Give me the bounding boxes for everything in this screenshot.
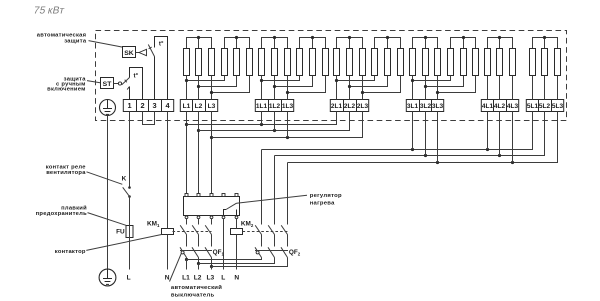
- ST contact stub: [114, 83, 119, 85]
- svg-text:контактор: контактор: [55, 249, 86, 255]
- circuit breaker QF2 pole 3: [281, 246, 288, 257]
- svg-text:L3: L3: [206, 274, 214, 281]
- svg-text:включением: включением: [47, 86, 86, 92]
- earth wire: [107, 116, 109, 270]
- contactor coil KM2: [231, 229, 243, 235]
- QF1 mechanical linkage: [180, 250, 212, 252]
- wire 1L3 (block down to bus): [287, 112, 289, 138]
- thermostat sensor box t* (terminals 1-2): [127, 68, 142, 100]
- wire L (terminal 1 down to fuse): [129, 112, 131, 188]
- control wire N via KM2 coil: [236, 219, 238, 270]
- heater star 2La (3 elements): [334, 36, 366, 76]
- pointer line to QF1 (automatic breaker): [170, 254, 182, 282]
- label FU: [116, 229, 125, 236]
- bus QF1-QF2 phase L2: [199, 258, 275, 264]
- SK actuator arrow (open triangle): [139, 49, 147, 55]
- QF2 mechanical linkage: [255, 250, 288, 252]
- contactor KM2 contact pole 1 with riser: [255, 150, 261, 247]
- heater group 2L bottom wiring and junctions: [335, 76, 401, 100]
- svg-text:t°: t°: [159, 40, 164, 47]
- contactor KM1 contact pole 3: [205, 219, 211, 247]
- circuit breaker QF1 pole 3: [205, 247, 213, 269]
- heater star 4L (3 elements): [485, 36, 516, 76]
- heater star 1Lb (3 elements): [297, 36, 329, 76]
- svg-text:L3: L3: [208, 103, 216, 110]
- ST contact blade: [122, 78, 130, 85]
- bus 3 group 3L/4L/5L (phase L3): [288, 112, 558, 165]
- heater star 5L (3 elements): [530, 36, 561, 76]
- svg-text:L1: L1: [183, 103, 191, 110]
- label KM1: [147, 220, 160, 227]
- svg-text:2L1: 2L1: [331, 103, 343, 110]
- wire 4L2 (block down to bus): [499, 112, 501, 156]
- terminal label L3: [206, 274, 214, 281]
- wire 1L1 (block down to bus): [261, 112, 263, 125]
- wire N (coil to bottom): [167, 235, 169, 270]
- terminal label L1: [182, 274, 190, 281]
- terminal label N (control): [234, 274, 239, 281]
- protective earth terminal (in enclosure): [100, 100, 116, 116]
- label: fusible link (plavkiy predokhranitel): [36, 204, 87, 217]
- svg-text:L: L: [127, 274, 131, 281]
- circuit breaker QF2 pole 1: [255, 246, 262, 257]
- svg-text:5L2: 5L2: [539, 103, 551, 110]
- svg-text:2: 2: [140, 101, 144, 110]
- wire 4L1 (block down to bus): [487, 112, 489, 150]
- svg-text:L: L: [221, 274, 225, 281]
- label: automatic protection (avtomaticheskaya zashchita): [37, 32, 87, 44]
- wire L1 (block to heat regulator input): [185, 112, 188, 194]
- heater star 1La (3 elements): [259, 36, 291, 76]
- label: heat regulator (regulyator nagreva): [310, 193, 342, 206]
- heater star 2Lb (3 elements): [372, 36, 404, 76]
- wire 1L2 (block down to bus): [274, 112, 276, 131]
- bus 3 group L/1L/2L (phase L3): [212, 112, 363, 140]
- svg-text:4L3: 4L3: [507, 103, 519, 110]
- jumper terminals 2-3: [143, 112, 155, 125]
- svg-text:L2: L2: [194, 274, 202, 281]
- SK contact blade on wire 3: [148, 45, 154, 57]
- dashed enclosure (heater unit boundary): [96, 31, 567, 121]
- pointer line to fuse: [88, 213, 127, 226]
- bus 1 group 3L/4L/5L (phase L1): [262, 112, 533, 152]
- pointer line to K contact: [87, 172, 123, 185]
- label: automatic circuit breaker (avtomaticheskiy vyklyuchatel): [171, 284, 222, 298]
- svg-text:2L2: 2L2: [344, 103, 356, 110]
- wire L (K contact to fuse): [129, 197, 131, 226]
- svg-text:5L1: 5L1: [527, 103, 539, 110]
- svg-text:1: 1: [127, 101, 131, 110]
- label QF1: [213, 249, 225, 256]
- KM2 mechanical linkage (dashed): [243, 231, 288, 233]
- ST contact fixed circle: [118, 82, 121, 85]
- thermal cutout SK box: [123, 47, 136, 58]
- pointer line to regulator label: [237, 195, 308, 203]
- bus 2 group 3L/4L/5L (phase L2): [275, 112, 545, 158]
- circuit breaker QF2 pole 2: [268, 246, 275, 257]
- wire N (terminal 4 down to contactor coil): [167, 112, 169, 229]
- terminal label N (left): [165, 274, 170, 281]
- svg-text:3L3: 3L3: [432, 103, 444, 110]
- wire L2 (block to heat regulator input): [197, 112, 200, 194]
- heater star La (3 elements): [184, 36, 215, 76]
- label: fan relay contact (kontakt rele ventilyatora): [46, 164, 86, 176]
- svg-text:выключатель: выключатель: [171, 292, 215, 298]
- svg-text:вентилятора: вентилятора: [46, 170, 86, 176]
- wire 3L3 (block down to bus): [437, 112, 439, 163]
- label K: [122, 175, 127, 182]
- KM1 mechanical linkage (dashed): [173, 231, 212, 233]
- svg-text:3L1: 3L1: [407, 103, 419, 110]
- terminal label L (control): [221, 274, 225, 281]
- svg-text:4L1: 4L1: [482, 103, 494, 110]
- svg-text:3L2: 3L2: [420, 103, 432, 110]
- terminal block 5L1 5L2 5L3: [526, 100, 563, 112]
- terminal label L2: [194, 274, 202, 281]
- svg-text:предохранитель: предохранитель: [36, 211, 87, 217]
- thermostat sensor box t* (terminals 3-4): [155, 37, 168, 100]
- pointer line to contactor coil: [86, 235, 161, 251]
- terminal block L1 L2 L3: [180, 100, 217, 112]
- pointer line to ST: [87, 81, 101, 83]
- contactor coil KM1: [162, 229, 174, 235]
- protective earth symbol (bottom): [99, 269, 116, 286]
- terminal label L (phase, left): [127, 274, 131, 281]
- svg-text:автоматический: автоматический: [171, 284, 222, 291]
- control wire L (regulator to bottom): [223, 219, 225, 270]
- power rating label 75kW: [32, 6, 65, 17]
- SK actuator stub: [136, 52, 140, 54]
- bus QF1-QF2 phase L1: [187, 258, 262, 260]
- svg-text:75 кВт: 75 кВт: [32, 6, 65, 17]
- svg-text:ST: ST: [103, 81, 113, 88]
- contactor KM1 contact pole 2: [192, 219, 198, 247]
- fuse FU: [126, 226, 133, 238]
- svg-text:защита: защита: [64, 38, 87, 44]
- terminal block 1L1 1L2 1L3: [255, 100, 293, 112]
- svg-text:4L2: 4L2: [494, 103, 506, 110]
- heater star Lb (3 elements): [222, 36, 253, 76]
- svg-text:1L2: 1L2: [269, 103, 281, 110]
- svg-text:5L3: 5L3: [552, 103, 564, 110]
- svg-text:SK: SK: [124, 50, 134, 57]
- svg-text:FU: FU: [116, 229, 125, 236]
- manual-reset protector ST box: [101, 78, 114, 89]
- wire L (fuse to bottom): [129, 238, 131, 270]
- svg-text:t°: t°: [134, 73, 139, 80]
- svg-text:N: N: [165, 274, 170, 281]
- label: contactor (kontaktor): [55, 249, 86, 255]
- terminal block 2L1 2L2 2L3: [330, 100, 368, 112]
- heater group 3L bottom wiring and junctions: [411, 76, 476, 100]
- terminal block 1 2 3 4: [123, 100, 173, 112]
- terminal block 3L1 3L2 3L3: [406, 100, 443, 112]
- svg-text:1L1: 1L1: [256, 103, 268, 110]
- svg-text:2L3: 2L3: [357, 103, 369, 110]
- label KM2: [241, 220, 254, 227]
- circuit breaker QF1 pole 2: [192, 247, 200, 269]
- pointer line to SK: [89, 41, 124, 48]
- wire 3L2 (block down to bus): [425, 112, 427, 156]
- heater star 3Lb (3 elements): [448, 36, 479, 76]
- contactor KM2 contact pole 2 with riser: [268, 156, 274, 247]
- contactor KM2 contact pole 3 with riser: [281, 163, 287, 247]
- contactor KM1 contact pole 1: [180, 219, 186, 247]
- svg-text:регулятор: регулятор: [310, 193, 342, 199]
- svg-text:N: N: [234, 274, 239, 281]
- bus 2 group L/1L/2L (phase L2): [199, 112, 350, 133]
- svg-text:L1: L1: [182, 274, 190, 281]
- heater star 3La (3 elements): [410, 36, 441, 76]
- svg-text:3: 3: [152, 101, 156, 110]
- heater star 5L bottom wires: [533, 76, 558, 100]
- wire L3 (block to heat regulator input): [210, 112, 213, 194]
- circuit breaker QF1 pole 1: [180, 247, 188, 269]
- label: protection with manual reset (zashchita s ruchnym vklyucheniem): [47, 77, 86, 93]
- terminal block 4L1 4L2 4L3: [481, 100, 518, 112]
- heat regulator unit: [184, 194, 240, 219]
- heater group L bottom wiring and junctions: [185, 76, 250, 100]
- wire 4L3 (block down to bus): [512, 112, 514, 163]
- wire 3L1 (block down to bus): [412, 112, 414, 150]
- bus 1 group L/1L/2L (phase L1): [187, 112, 337, 127]
- heater group 1L bottom wiring and junctions: [260, 76, 326, 100]
- label QF2: [289, 249, 301, 256]
- svg-text:K: K: [122, 175, 127, 182]
- svg-text:1L3: 1L3: [282, 103, 294, 110]
- bus QF1-QF2 phase L3: [212, 258, 288, 267]
- heater star 4L bottom wires: [488, 76, 513, 100]
- svg-text:L2: L2: [195, 103, 203, 110]
- fan relay contact K: [123, 186, 131, 198]
- svg-text:нагрева: нагрева: [310, 200, 335, 206]
